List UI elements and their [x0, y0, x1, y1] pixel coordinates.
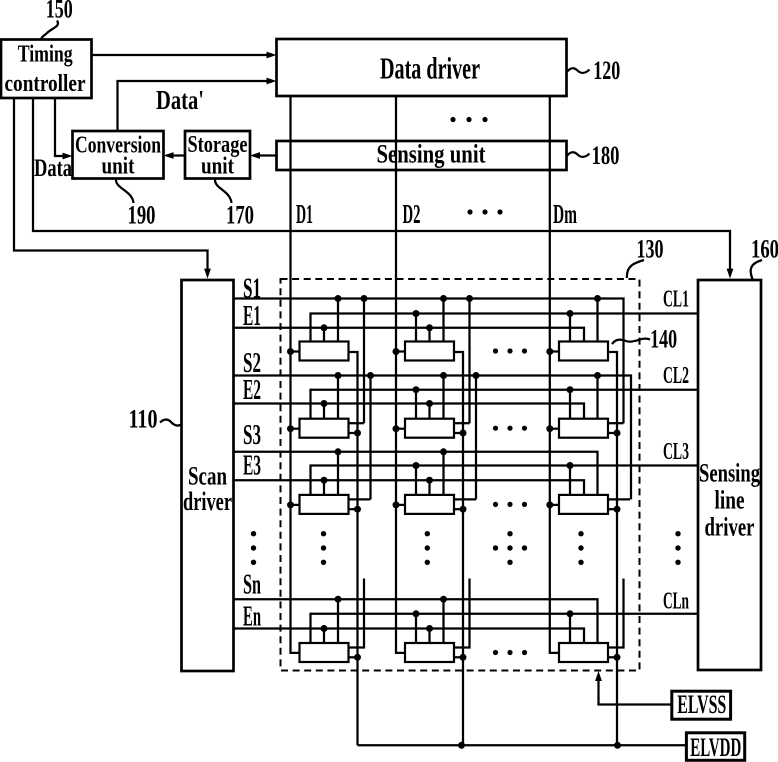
wire scan line S1: [234, 299, 624, 424]
svg-text:Data driver: Data driver: [380, 51, 480, 86]
label CL1: [663, 286, 689, 313]
wire scan line S2: [234, 376, 632, 500]
sensing unit U180: [277, 139, 567, 171]
svg-text:line: line: [715, 486, 745, 515]
label CL3: [663, 438, 689, 465]
label Dm: [553, 199, 577, 229]
wire data line D2: [396, 96, 405, 653]
label E1: [243, 301, 261, 332]
pixel 140 row n col 2: [405, 579, 470, 663]
svg-text:Timing: Timing: [18, 42, 73, 68]
wire timing controller to data driver: [91, 52, 277, 59]
wire ELVDD rail: [358, 742, 687, 749]
leader line for 140: [612, 339, 650, 344]
label 180 with tilde: [567, 140, 620, 170]
svg-text:unit: unit: [201, 154, 234, 180]
wire emission line En: [234, 629, 585, 644]
row ellipsis between col2 col3 row 1: [493, 348, 527, 353]
ellipsis cluster centre: [493, 531, 527, 565]
leader line for 160: [751, 260, 762, 279]
svg-text:D2: D2: [403, 199, 421, 229]
label E2: [243, 375, 261, 406]
label Data: [34, 153, 72, 182]
vertical ellipsis scan label column: [251, 531, 256, 565]
ELVSS terminal box: [672, 690, 731, 719]
label D1: [296, 199, 313, 229]
pixel 140 row 1 col 1: [287, 295, 349, 361]
wire storage unit to conversion unit: [164, 152, 186, 159]
ellipsis data lines top: [450, 117, 487, 122]
timing controller U150: [1, 40, 92, 99]
conversion unit U190: [73, 131, 164, 180]
pixel 140 row 3 col 3: [546, 462, 630, 514]
pixel 140 row 3 col 2: [393, 372, 480, 514]
sensing line driver U160: [698, 280, 761, 670]
svg-text:150: 150: [46, 0, 73, 24]
leader tilde for 110: [160, 420, 182, 426]
pixel 140 row n col 3: [559, 579, 624, 663]
data driver U120: [277, 39, 567, 96]
pixel 140 row n col 1: [300, 579, 365, 663]
svg-text:Sensing: Sensing: [699, 459, 760, 488]
svg-text:CLn: CLn: [663, 588, 689, 615]
svg-text:ELVSS: ELVSS: [677, 690, 726, 719]
wire emission line E1: [234, 328, 585, 342]
svg-text:driver: driver: [183, 487, 232, 516]
label 170: [226, 200, 254, 230]
pixel 140 row 3 col 1: [287, 372, 374, 514]
vertical ellipsis col 1: [321, 531, 326, 565]
svg-text:E1: E1: [243, 301, 261, 332]
svg-text:160: 160: [751, 234, 778, 264]
ELVDD terminal box: [686, 733, 744, 762]
svg-text:130: 130: [637, 234, 664, 264]
wire sensing line CL1: [311, 314, 699, 342]
svg-text:120: 120: [593, 55, 620, 85]
label Data': [156, 85, 204, 115]
row ellipsis between col2 col3 row 3: [493, 502, 527, 507]
svg-text:E2: E2: [243, 375, 261, 406]
wire ELVDD column 3 vertical: [608, 352, 617, 745]
svg-text:Dm: Dm: [553, 199, 577, 229]
wire scan line Sn: [234, 599, 598, 643]
label D2: [403, 199, 421, 229]
svg-text:controller: controller: [5, 71, 86, 97]
row ellipsis between col2 col3 row n: [493, 650, 527, 655]
label S3: [243, 420, 261, 451]
scan driver U110: [182, 280, 234, 671]
label 190: [128, 200, 156, 230]
svg-text:S1: S1: [243, 273, 261, 304]
svg-text:180: 180: [592, 140, 620, 170]
label E3: [243, 451, 261, 482]
svg-text:En: En: [243, 602, 261, 633]
label 160: [751, 234, 778, 264]
svg-text:ELVDD: ELVDD: [690, 733, 741, 762]
wire Data timing controller to conversion unit: [55, 98, 73, 159]
svg-text:Data: Data: [34, 153, 72, 182]
label CL2: [663, 362, 689, 389]
wire sensing line CL3: [311, 466, 699, 495]
label 120 with tilde: [567, 55, 621, 85]
wire Data' conversion unit to data driver: [118, 78, 277, 131]
svg-text:Data': Data': [156, 85, 204, 115]
pixel 140 row 1 col 3: [546, 295, 608, 361]
svg-text:Sensing unit: Sensing unit: [377, 139, 486, 169]
leader line for 150: [41, 21, 58, 40]
pixel 140 row 1 col 2: [393, 295, 455, 361]
svg-text:CL1: CL1: [663, 286, 689, 313]
svg-text:CL3: CL3: [663, 438, 689, 465]
wire scan line S3: [234, 452, 598, 495]
wire emission line E2: [234, 404, 585, 419]
ellipsis between D2 and Dm labels: [467, 209, 502, 214]
label 130: [637, 234, 664, 264]
label Sn: [243, 570, 261, 601]
wire sensing line CLn: [311, 614, 699, 643]
svg-text:S3: S3: [243, 420, 261, 451]
wire data line Dm: [550, 96, 559, 653]
wire sensing unit to storage unit: [250, 152, 277, 159]
label 150: [46, 0, 73, 24]
svg-text:190: 190: [128, 200, 156, 230]
pixel 140 row 2 col 3: [546, 372, 623, 438]
wire timing controller to sensing line driver: [33, 98, 733, 279]
label CLn: [663, 588, 689, 615]
pixel portion 130 dashed border: [281, 279, 640, 671]
wire ELVSS to pixel portion: [595, 671, 671, 705]
wire ELVDD column 2 vertical: [454, 352, 463, 745]
svg-text:unit: unit: [102, 154, 135, 180]
vertical ellipsis col 2: [425, 531, 430, 565]
label S1: [243, 273, 261, 304]
leader line for 190: [116, 179, 134, 203]
svg-text:E3: E3: [243, 451, 261, 482]
svg-text:CL2: CL2: [663, 362, 689, 389]
wire sensing line CL2: [311, 390, 699, 419]
svg-text:170: 170: [226, 200, 254, 230]
storage unit U170: [185, 131, 250, 180]
svg-text:140: 140: [650, 324, 677, 354]
svg-text:driver: driver: [705, 513, 755, 542]
wire ELVDD column 1 vertical: [349, 352, 358, 745]
wire emission line E3: [234, 480, 585, 495]
svg-text:Sn: Sn: [243, 570, 261, 601]
pixel 140 row 2 col 2: [393, 295, 474, 438]
svg-text:110: 110: [129, 404, 158, 434]
label En: [243, 602, 261, 633]
pixel 140 row 2 col 1: [287, 295, 368, 438]
leader line for 130: [627, 260, 644, 278]
vertical ellipsis CL column: [675, 531, 680, 565]
label S2: [243, 348, 261, 379]
row ellipsis between col2 col3 row 2: [493, 426, 527, 431]
leader line for 170: [215, 179, 232, 203]
svg-text:D1: D1: [296, 199, 313, 229]
vertical ellipsis col 3: [578, 531, 583, 565]
wire data line D1: [291, 96, 300, 653]
label 110: [129, 404, 158, 434]
wire timing controller to scan driver: [14, 98, 211, 279]
label 140: [650, 324, 677, 354]
